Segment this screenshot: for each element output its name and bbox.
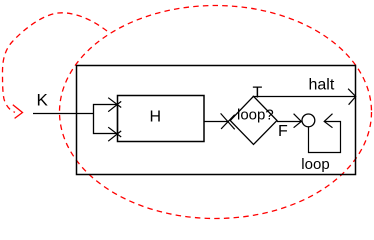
svg-text:T: T [253,84,263,101]
diamond loop? [230,96,277,144]
halt arrowhead [348,89,356,105]
red arrowhead at input [13,105,23,119]
red feedback curve (K fed to itself) [3,13,108,113]
arrowhead into circle [294,114,302,128]
svg-text:F: F [278,123,288,140]
splitter top arrowhead [108,98,121,112]
splitter bottom arrowhead [108,127,121,141]
splitter box [94,105,118,134]
svg-text:loop: loop [301,156,329,173]
box H [118,96,205,142]
svg-text:halt: halt [309,77,335,94]
big dashed ellipse (machine K boundary) [60,6,372,219]
input wire [33,113,94,115]
svg-text:loop?: loop? [237,107,274,124]
halt wire [253,96,356,98]
feedback wire square [309,122,341,153]
svg-text:K: K [37,90,49,109]
loop circle [302,114,315,127]
arrowhead into diamond (X style) [221,113,235,129]
F wire diamond to circle [277,121,301,123]
outer box (machine K) [77,66,356,175]
wire H to diamond [205,121,230,123]
svg-text:H: H [150,108,162,125]
feedback arrowhead [324,114,332,128]
